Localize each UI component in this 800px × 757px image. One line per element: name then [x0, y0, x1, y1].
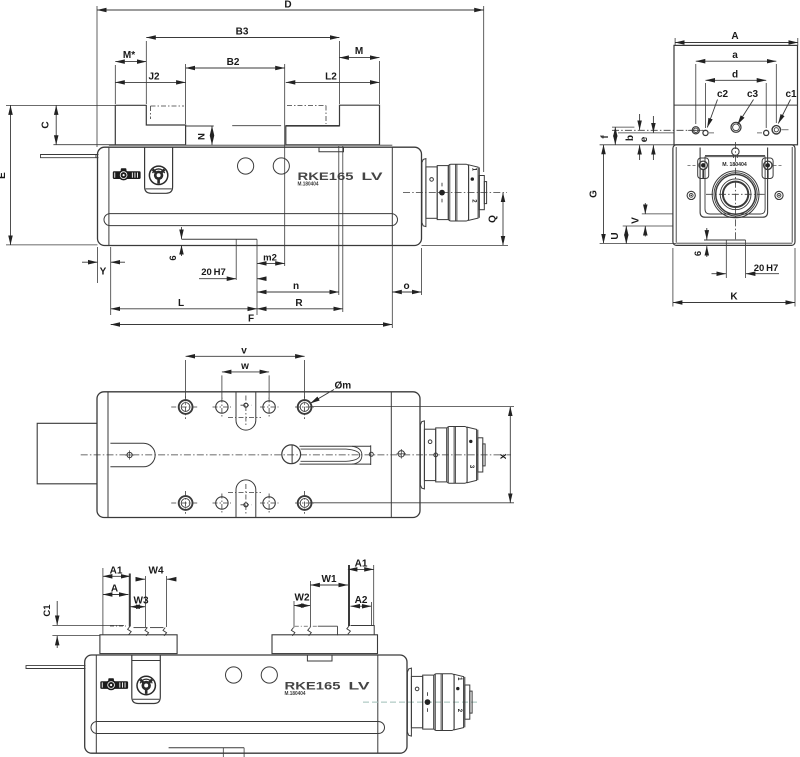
spindle graduated ring [469, 165, 479, 221]
view3 ext lines left group [102, 568, 104, 635]
svg-text:Øm: Øm [335, 381, 352, 392]
plan hole h5 bottom [298, 496, 312, 510]
endview channel bridge lines [705, 154, 765, 156]
svg-text:N: N [197, 133, 208, 140]
view3 ext lines right group [293, 601, 295, 628]
spindle graduated ring [467, 427, 477, 483]
view1 ROHM logo [113, 171, 141, 179]
view1 right jaw hidden hole dash-dot [287, 105, 326, 107]
plan bottom U-tab [236, 480, 256, 518]
endview lower line e-ref [618, 132, 674, 134]
dimension x [310, 406, 514, 408]
dimension V [642, 213, 673, 215]
plan top U-tab [236, 392, 256, 430]
view3 body circles [226, 667, 242, 683]
endview bearing left [698, 158, 709, 179]
spindle drum [447, 427, 467, 484]
dimension G [600, 144, 674, 146]
svg-text:W1: W1 [322, 574, 337, 585]
spindle screw dot [430, 178, 434, 182]
spindle index dot [425, 699, 431, 705]
svg-text:LV: LV [349, 680, 371, 692]
dimension C1 [52, 624, 124, 626]
svg-text:J2: J2 [148, 71, 160, 82]
endview body outline [673, 145, 795, 246]
svg-text:b: b [625, 135, 636, 141]
svg-text:M. 180404: M. 180404 [722, 162, 747, 168]
svg-text:e: e [639, 136, 650, 142]
view3 right clamp face thick [348, 565, 350, 626]
dimension W1 [310, 584, 348, 586]
view3 top notch [307, 655, 332, 661]
plan hole h2 top [216, 401, 228, 413]
view1 body right inner edge [391, 147, 393, 245]
dimension Y [97, 247, 99, 283]
spindle drum [434, 674, 454, 731]
svg-text:M*: M* [123, 50, 135, 61]
view3 right group insert lines [295, 625, 317, 627]
endview hole c3 center [731, 122, 741, 132]
view1 bottom recess line [182, 238, 258, 240]
endview hole c1 [772, 126, 780, 134]
view1 body circles [238, 158, 254, 174]
endview jaw plate [674, 45, 798, 144]
dimension B2 [185, 64, 187, 124]
svg-text:K: K [730, 292, 738, 303]
view3 spindle centerline teal [363, 701, 479, 703]
svg-text:D: D [284, 0, 291, 11]
plan hole h4 top [263, 401, 275, 413]
dimension A1 right [348, 568, 374, 570]
view3 dial knob [137, 676, 155, 694]
dimension 6 view1 [181, 227, 183, 239]
dimension A2 [351, 605, 372, 607]
dimension N [211, 126, 213, 145]
view3 groove slot [91, 722, 385, 734]
view3 left jaw carrier block [100, 635, 177, 654]
view1 left jaw step line extension [186, 125, 214, 127]
endview body inner edges [675, 147, 677, 243]
plan left slot [110, 443, 155, 467]
svg-text:W4: W4 [149, 565, 164, 576]
endview spindle bore rings [712, 171, 759, 218]
svg-text:6: 6 [693, 251, 704, 256]
spindle mid section [423, 675, 434, 729]
endview U channel outer [700, 148, 768, 218]
dimension v [185, 360, 187, 398]
endview hole right small [764, 130, 769, 135]
dimension A [674, 38, 676, 45]
view1 body left inner edge [108, 147, 110, 245]
plan hole h1 top [179, 400, 193, 414]
endview hole left [692, 127, 699, 134]
view3 left rod [26, 666, 86, 669]
dimension e [652, 116, 654, 133]
spindle graduated ring [454, 674, 464, 730]
view1 left protruding rod [41, 155, 99, 158]
view1 left jaw hidden hole dash-dot [151, 105, 185, 107]
plan right block circle [398, 451, 404, 457]
spindle mid section [437, 166, 448, 220]
view3 right insert block [351, 626, 375, 635]
endview U channel inner [705, 157, 765, 215]
dimension W2 [294, 605, 310, 607]
spindle small circle [434, 453, 438, 457]
dimension W3 [130, 606, 145, 608]
spindle ring dot and numbers [471, 177, 474, 180]
view1 right fixed jaw [286, 105, 380, 145]
svg-text:d: d [732, 69, 738, 80]
spindle screw dot [428, 440, 432, 444]
plan left tang [37, 423, 97, 484]
endview bearing right [762, 158, 773, 179]
svg-text:B2: B2 [227, 57, 240, 68]
spindle flange [420, 421, 424, 489]
plan hole h4 bottom [263, 497, 275, 509]
dimension L2 [286, 81, 380, 83]
view1 side view: main body outline [98, 147, 422, 245]
dimension W4 [137, 578, 146, 580]
svg-text:c3: c3 [747, 89, 759, 100]
svg-text:x: x [498, 453, 509, 459]
svg-text:A2: A2 [355, 595, 368, 606]
spindle end cap [478, 438, 483, 472]
endview jaw step line [674, 104, 798, 106]
spindle flange [407, 668, 411, 736]
endview oiler [732, 148, 739, 155]
dimension 20H7 endview [712, 273, 726, 275]
view1 horizontal groove slot [104, 214, 398, 226]
svg-text:A1: A1 [355, 558, 368, 569]
spindle flange [422, 159, 426, 227]
view3 left group insert lines [134, 627, 148, 629]
spindle ring dot and number 3 [469, 440, 472, 443]
svg-text:o: o [403, 281, 409, 292]
svg-text:Q: Q [488, 215, 499, 223]
view3 ROHM logo [100, 681, 128, 689]
svg-text:A: A [111, 584, 118, 595]
dimension a [695, 64, 697, 124]
dimension b [639, 114, 641, 130]
dimension w [221, 375, 223, 399]
dimension M* [114, 65, 116, 104]
svg-text:m2: m2 [263, 252, 277, 263]
view3 body outline [85, 655, 407, 753]
view3 left clamp face thick [129, 574, 131, 627]
svg-text:M.180404: M.180404 [285, 691, 306, 697]
svg-text:W2: W2 [295, 593, 310, 604]
svg-text:M.180404: M.180404 [298, 182, 319, 188]
endview bottom slot lines [704, 239, 746, 241]
svg-text:L: L [178, 298, 184, 309]
svg-text:V: V [630, 217, 641, 224]
svg-text:C: C [41, 121, 52, 128]
svg-text:W3: W3 [134, 596, 149, 607]
svg-text:F: F [248, 314, 254, 325]
view1 body top notch between jaws [319, 147, 344, 152]
svg-text:6: 6 [168, 255, 179, 260]
view3 bottom recess [169, 747, 245, 749]
svg-text:C1: C1 [42, 604, 53, 617]
spindle hub [424, 429, 435, 480]
svg-text:G: G [588, 190, 599, 198]
view3 body inner edges [95, 655, 97, 753]
plan hole h1 bottom [179, 496, 193, 510]
view1 mid support rail line [232, 125, 281, 127]
svg-text:w: w [240, 361, 249, 372]
dimension C [6, 104, 115, 106]
view1 spindle centerline [403, 192, 507, 194]
dimension 20H7 view1 [235, 239, 237, 280]
svg-text:a: a [732, 50, 738, 61]
svg-text:Y: Y [100, 267, 107, 278]
svg-text:c1: c1 [785, 89, 797, 100]
endview side screw left [687, 191, 695, 199]
plan centerline [81, 454, 511, 456]
svg-text:B3: B3 [236, 27, 249, 38]
svg-text:20 H7: 20 H7 [201, 267, 226, 278]
spindle hub [411, 676, 422, 727]
dimension F [391, 246, 393, 329]
dimension A1 left [103, 575, 130, 577]
plan lead screw [282, 445, 301, 464]
dimension E [6, 244, 98, 246]
dimension J2 [115, 81, 185, 83]
endview side screw right [775, 191, 783, 199]
spindle screw dot [415, 687, 419, 691]
svg-text:E: E [0, 172, 8, 179]
dimension L [111, 308, 257, 310]
dimension d [705, 83, 707, 128]
svg-text:n: n [293, 281, 299, 292]
view1 slide surface line [109, 144, 392, 146]
dimension o [421, 248, 423, 295]
dimension Q [422, 244, 509, 246]
dimension f [612, 126, 634, 128]
svg-text:L2: L2 [325, 71, 337, 82]
plan body outline [97, 392, 420, 518]
plan hole h5 top [298, 400, 312, 414]
dimension A [103, 594, 128, 596]
spindle ring dot and numbers [456, 687, 459, 690]
dimension D [96, 6, 98, 147]
svg-text:LV: LV [362, 171, 384, 183]
svg-text:20 H7: 20 H7 [754, 263, 779, 274]
view1 dial knob [149, 166, 167, 184]
spindle drum [448, 164, 468, 221]
svg-text:v: v [241, 345, 247, 356]
plan body inner edges [107, 392, 109, 518]
view1 knob plate [145, 147, 173, 193]
view3 right jaw carrier block [272, 635, 378, 654]
spindle hub [426, 167, 437, 218]
endview hole c2 [703, 130, 708, 135]
spindle end cap [479, 176, 484, 210]
dimension K [672, 248, 674, 307]
svg-text:U: U [610, 232, 621, 239]
endview hole row centerline [612, 129, 703, 131]
svg-text:R: R [295, 298, 303, 309]
spindle index dot [439, 190, 445, 196]
svg-text:M: M [355, 46, 363, 57]
view1 left movable jaw [115, 105, 185, 145]
endview bore crosshair [706, 193, 766, 195]
dimension n [338, 146, 340, 295]
dimension m2 [257, 262, 285, 264]
dimension B3 [145, 41, 147, 104]
plan hole h2 bottom [216, 497, 228, 509]
dimension 6 endview [706, 228, 708, 240]
svg-text:A: A [731, 31, 738, 42]
dimension U [625, 226, 627, 244]
svg-text:A1: A1 [110, 565, 123, 576]
view3 knob plate [132, 655, 161, 704]
spindle mid section [436, 428, 447, 482]
dimension R [342, 146, 344, 312]
dimension M [379, 61, 381, 104]
spindle end cap [465, 685, 470, 719]
svg-text:c2: c2 [717, 89, 729, 100]
